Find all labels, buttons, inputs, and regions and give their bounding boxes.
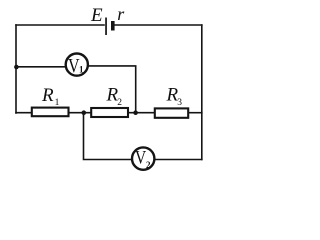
svg-text:2: 2	[146, 160, 151, 170]
svg-text:V: V	[135, 148, 146, 169]
wire: resistor row segment R1-R2	[69, 112, 92, 114]
node B dot (R2-R3 junction)	[133, 110, 138, 115]
node dot left (V1 tap)	[14, 65, 19, 70]
wire: top-left segment to battery	[16, 24, 104, 26]
resistor R2	[91, 108, 128, 117]
resistor R3	[155, 108, 188, 117]
battery long plate	[105, 18, 107, 36]
wire: V2 to right vertical	[155, 159, 202, 161]
wire: battery to top-right corner	[115, 24, 202, 26]
wire: resistor row segment R3-right	[188, 112, 202, 114]
battery E,r	[105, 18, 114, 36]
battery short thick plate	[111, 21, 115, 31]
wire: left lead to R1	[16, 112, 32, 114]
node A dot (R1-R2 junction)	[82, 110, 87, 115]
svg-text:r: r	[117, 4, 125, 24]
svg-text:3: 3	[177, 98, 182, 108]
svg-text:1: 1	[79, 65, 84, 75]
voltmeter V2	[132, 147, 154, 169]
svg-text:1: 1	[55, 98, 60, 108]
resistor R1	[32, 108, 69, 117]
wire: V1 branch left segment	[16, 66, 66, 68]
wire: resistor row segment R2-R3	[128, 112, 155, 114]
svg-text:E: E	[90, 5, 103, 26]
svg-text:R: R	[41, 85, 54, 106]
wire: left vertical branch	[15, 25, 17, 113]
wire: V2 branch from node A down and right	[84, 113, 132, 160]
wire: right vertical branch	[201, 25, 203, 160]
svg-text:2: 2	[117, 98, 122, 108]
wire: V1 branch right segment down to node B	[89, 66, 136, 113]
voltmeter V1	[66, 54, 88, 77]
